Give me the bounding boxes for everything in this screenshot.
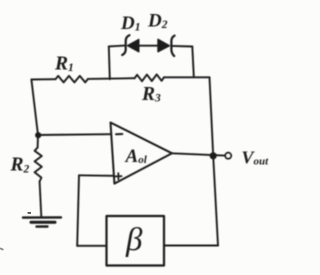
wire: between D1 and D2	[139, 45, 158, 47]
op-amp minus sign	[116, 133, 122, 135]
wire: left vertical from top corner to node	[31, 80, 38, 136]
wire: diode branch left stub	[109, 46, 110, 79]
output terminal circle	[225, 153, 231, 159]
diode D1 triangle	[128, 40, 139, 52]
beta block box	[107, 216, 165, 266]
wire: R3 to right corner	[164, 76, 210, 78]
diode D2 triangle	[158, 39, 169, 51]
wire: D2 to right stub	[171, 45, 192, 48]
resistor R2	[35, 148, 42, 182]
wire: between R1 and R3	[88, 77, 135, 80]
op-amp U1 triangle	[111, 123, 173, 184]
node junction dot	[35, 132, 41, 138]
resistor R1	[56, 76, 89, 83]
wire: node down to R2	[37, 135, 39, 148]
wire: diode branch right stub	[192, 47, 194, 77]
svg-text:β: β	[125, 222, 143, 258]
wire: R2 to ground	[40, 182, 42, 217]
wire: right vertical	[210, 77, 219, 245]
stray scan mark at left edge bottom	[0, 248, 3, 250]
diode D2 cathode bar	[171, 36, 174, 56]
wire: left feedback vertical	[77, 175, 79, 246]
wire: beta box right to right vertical	[164, 245, 218, 247]
wire: node to op-amp inverting input	[38, 133, 111, 136]
wire: diode branch left horizontal	[109, 45, 125, 48]
wire: op-amp output	[172, 153, 225, 155]
ground	[23, 216, 61, 219]
resistor R3	[135, 74, 164, 81]
diode D1 cathode bar	[122, 35, 129, 55]
wire: main top line left segment with R1	[31, 78, 55, 80]
op-amp plus sign	[115, 173, 121, 179]
wire: feedback to beta box left	[77, 245, 106, 247]
output junction dot	[210, 152, 217, 159]
stray scan mark near R2/ground	[28, 212, 31, 214]
wire: non-inverting input	[79, 174, 114, 177]
